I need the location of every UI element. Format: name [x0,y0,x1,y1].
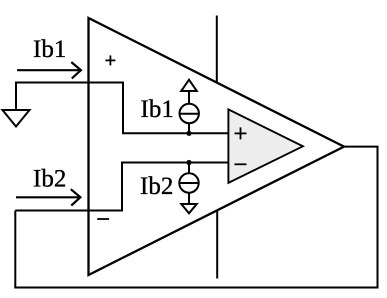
current source I2 (Ib2) [179,163,198,214]
wire: feedback left vertical [14,211,16,289]
plus sign (U2 non-inverting input) [235,127,247,139]
wire: inverting input to U2 [121,162,229,164]
svg-text:Ib1: Ib1 [33,36,66,63]
svg-text:Ib2: Ib2 [140,173,173,200]
ground [3,110,30,127]
negative supply stub [216,211,218,279]
op-amp U1 (large outline triangle) [89,18,345,275]
wire: output [344,146,379,148]
wire: non-inverting input to U2 [122,132,229,134]
wire: ground drop [15,82,17,111]
current direction arrow Ib1 [17,62,81,78]
current source I1 (Ib1) [180,80,199,134]
wire: feedback bottom [14,287,378,289]
wire: feedback right vertical [377,147,379,289]
svg-text:Ib1: Ib1 [141,96,174,123]
op-amp U2 (ideal inner op-amp, shaded) [228,109,303,182]
minus sign (U1 inverting input) [97,218,109,220]
minus sign (U2 inverting input) [235,163,247,165]
svg-text:Ib2: Ib2 [33,165,66,192]
positive supply stub [216,16,218,83]
wire: Ib2 input to inverting node [15,163,122,211]
current direction arrow Ib2 [16,189,80,205]
wire: Ib1 input to non-inverting node [16,83,123,134]
plus sign (U1 non-inverting input) [105,55,115,65]
node: junction dot at inverting wire [186,160,191,165]
node: junction dot at non-inverting wire [186,131,191,136]
